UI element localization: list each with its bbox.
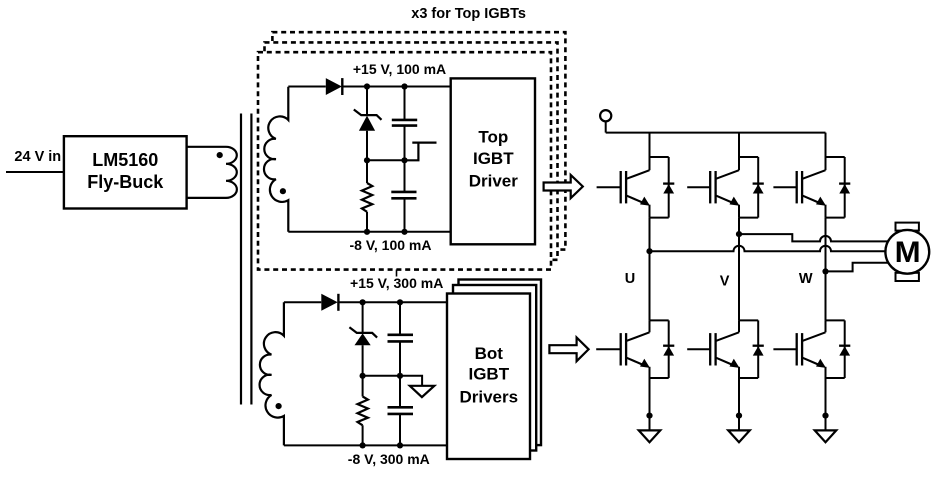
wire Q6 emitter rail — [826, 367, 845, 378]
wire phase leg W — [825, 218, 827, 321]
svg-text:Fly-Buck: Fly-Buck — [87, 172, 164, 192]
node phase W — [822, 268, 828, 274]
wire DC bus drop to Q3 — [825, 133, 827, 157]
block arrow bottom drivers output — [549, 338, 588, 362]
wire mid rail (bottom section) — [363, 375, 400, 377]
IGBT Q5 collector — [716, 332, 739, 341]
svg-text:LM5160: LM5160 — [92, 150, 158, 170]
wire Q6 collector rail — [826, 320, 845, 332]
node phase U — [646, 248, 652, 254]
block Bot IGBT Drivers (front) — [447, 294, 530, 460]
wire Q1 emitter rail — [650, 205, 669, 218]
motor M — [885, 230, 929, 274]
wire Q1 collector rail — [650, 157, 669, 170]
label phase V — [720, 274, 730, 290]
svg-text:IGBT: IGBT — [473, 149, 514, 168]
ground symbol phase U — [639, 430, 661, 442]
wire Q4 collector rail — [650, 320, 669, 332]
freewheel diode D8 — [663, 320, 674, 378]
node +15V at cap (bottom) — [397, 299, 403, 305]
node +15V at zener (top) — [364, 83, 370, 89]
transformer T1 secondary winding S2 (bottom) — [260, 302, 284, 445]
block Bot IGBT Drivers (middle copy) — [453, 285, 536, 451]
label -8 V, 100 mA — [350, 237, 432, 253]
wire Q5 emitter rail — [739, 367, 758, 378]
block Top IGBT Driver — [451, 78, 535, 244]
node mid rail at cap (bottom) — [397, 373, 403, 379]
svg-text:Driver: Driver — [469, 172, 519, 191]
wire Q5 collector rail — [739, 320, 758, 332]
IGBT Q3 collector — [803, 170, 826, 179]
resistor R2 (bottom) — [358, 376, 368, 446]
capacitor C2 (top) — [391, 160, 416, 232]
capacitor C3 (bottom) — [388, 302, 414, 376]
ground symbol (bottom section) — [400, 376, 434, 397]
node emitter Q5 — [736, 413, 742, 419]
svg-text:W: W — [799, 271, 813, 287]
wire gate lead Q5 — [687, 348, 710, 350]
wire mid rail (top section) — [367, 159, 405, 161]
secondary S2 polarity dot — [276, 403, 282, 409]
wire -8 V rail (bottom section) — [284, 444, 447, 446]
IGBT Q3 body bar — [801, 171, 803, 203]
DC bus terminal circle — [600, 110, 611, 133]
freewheel diode D7 — [839, 157, 850, 218]
ground symbol phase V — [728, 430, 750, 442]
capacitor C4 (bottom) — [388, 376, 414, 446]
transformer T1 core — [241, 114, 251, 405]
wire DC bus drop to Q1 — [649, 133, 651, 157]
wire gate lead Q6 — [773, 348, 796, 350]
wire phase W to motor — [826, 263, 890, 272]
dashed replication box (front) — [258, 52, 551, 269]
leader tick to bottom section label — [396, 270, 398, 277]
label phase U — [625, 271, 635, 287]
node -8V at cap (top) — [401, 229, 407, 235]
wire DC bus drop to Q2 — [738, 133, 740, 157]
IGBT Q1 gate bar — [620, 171, 622, 203]
node +15V at cap (top) — [401, 83, 407, 89]
block arrow top driver output — [544, 175, 583, 198]
svg-text:Bot: Bot — [475, 344, 504, 363]
node -8V at resistor (top) — [364, 229, 370, 235]
wire phase leg U — [649, 218, 651, 321]
IGBT Q2 gate bar — [709, 171, 711, 203]
IGBT Q6 emitter — [803, 358, 826, 368]
dashed replication box (middle) — [265, 42, 558, 259]
svg-text:Top: Top — [478, 128, 508, 147]
IGBT Q4 body bar — [625, 333, 627, 365]
svg-text:-8 V, 300 mA: -8 V, 300 mA — [348, 451, 430, 467]
label +15 V, 300 mA — [350, 275, 443, 291]
IGBT Q1 collector — [627, 170, 650, 179]
wire DC bus — [606, 132, 826, 134]
label x3 for Top IGBTs — [411, 6, 526, 22]
IGBT Q5 gate bar — [709, 333, 711, 365]
svg-text:24 V in: 24 V in — [14, 149, 61, 165]
node phase V — [736, 231, 742, 237]
freewheel diode D10 — [839, 320, 850, 378]
wire emitter to ground Q4 — [649, 378, 651, 433]
wire +15 V rail (top section) — [288, 86, 450, 88]
node emitter Q6 — [822, 413, 828, 419]
wire Q3 collector rail — [826, 157, 845, 170]
label phase W — [799, 271, 813, 287]
IGBT Q2 collector — [716, 170, 739, 179]
node -8V at cap (bottom) — [397, 442, 403, 448]
IGBT Q2 emitter — [716, 196, 739, 206]
wire Q3 emitter rail — [826, 205, 845, 218]
wire Q2 collector rail — [739, 157, 758, 170]
IGBT Q6 body bar — [801, 333, 803, 365]
wire gate lead Q3 — [773, 186, 796, 188]
resistor R1 (top) — [362, 160, 372, 232]
node +15V at zener (bottom) — [360, 299, 366, 305]
wire phase leg V — [738, 218, 740, 321]
wire gate lead Q4 — [596, 348, 621, 350]
IGBT Q4 gate bar — [620, 333, 622, 365]
svg-text:x3 for Top IGBTs: x3 for Top IGBTs — [411, 6, 526, 22]
svg-text:-8 V, 100 mA: -8 V, 100 mA — [350, 237, 432, 253]
block U1 LM5160 Fly-Buck — [64, 136, 187, 208]
IGBT Q5 emitter — [716, 358, 739, 368]
wire gate lead Q1 — [597, 186, 621, 188]
IGBT Q4 emitter — [627, 358, 650, 368]
IGBT Q6 gate bar — [796, 333, 798, 365]
floating reference tab symbol (top) — [405, 143, 437, 161]
freewheel diode D6 — [753, 157, 764, 218]
zener D4 (bottom) — [349, 302, 377, 376]
block Bot IGBT Drivers (back copy) — [459, 280, 542, 446]
node -8V at resistor (bottom) — [360, 442, 366, 448]
svg-text:M: M — [895, 236, 921, 269]
label 24 V in — [14, 149, 61, 165]
svg-text:IGBT: IGBT — [468, 365, 509, 384]
wire emitter to ground Q5 — [738, 378, 740, 433]
wire Q2 emitter rail — [739, 205, 758, 218]
freewheel diode D5 — [663, 157, 674, 218]
IGBT Q6 collector — [803, 332, 826, 341]
transformer T1 primary dot — [217, 152, 223, 158]
secondary S1 polarity dot — [280, 188, 286, 194]
wire -8 V rail (top section) — [288, 231, 450, 233]
node mid rail at cap (top) — [401, 157, 407, 163]
ground symbol phase W — [815, 430, 837, 442]
diode D1 rectifier (top) — [326, 78, 343, 95]
wire 24 V input — [6, 171, 64, 173]
wire emitter to ground Q6 — [825, 378, 827, 433]
svg-text:V: V — [720, 274, 730, 290]
IGBT Q2 body bar — [714, 171, 716, 203]
IGBT Q5 body bar — [714, 333, 716, 365]
node mid rail at zener/resistor (top) — [364, 157, 370, 163]
label +15 V, 100 mA — [353, 61, 446, 77]
svg-text:+15 V, 300 mA: +15 V, 300 mA — [350, 275, 443, 291]
transformer T1 primary winding — [187, 147, 237, 198]
dashed replication box (back) — [272, 32, 565, 249]
svg-text:Drivers: Drivers — [459, 388, 518, 407]
node emitter Q4 — [646, 413, 652, 419]
zener D2 (top) — [354, 87, 382, 161]
motor M terminal blocks — [896, 223, 919, 281]
label -8 V, 300 mA — [348, 451, 430, 467]
svg-text:U: U — [625, 271, 635, 287]
wire phase U to motor — [650, 246, 886, 251]
IGBT Q4 collector — [627, 332, 650, 341]
node mid rail at zener/resistor (bottom) — [360, 373, 366, 379]
wire Q4 emitter rail — [650, 367, 669, 378]
IGBT Q1 body bar — [625, 171, 627, 203]
diode D3 rectifier (bottom) — [321, 294, 338, 311]
IGBT Q1 emitter — [627, 196, 650, 206]
IGBT Q3 emitter — [803, 196, 826, 206]
svg-text:+15 V, 100 mA: +15 V, 100 mA — [353, 61, 446, 77]
wire gate lead Q2 — [687, 186, 710, 188]
transformer T1 secondary winding S1 (top) — [264, 87, 288, 232]
IGBT Q3 gate bar — [796, 171, 798, 203]
wire phase V to motor — [739, 234, 888, 241]
wire +15 V rail (bottom section) — [284, 301, 447, 303]
capacitor C1 (top) — [392, 87, 417, 161]
freewheel diode D9 — [753, 320, 764, 378]
